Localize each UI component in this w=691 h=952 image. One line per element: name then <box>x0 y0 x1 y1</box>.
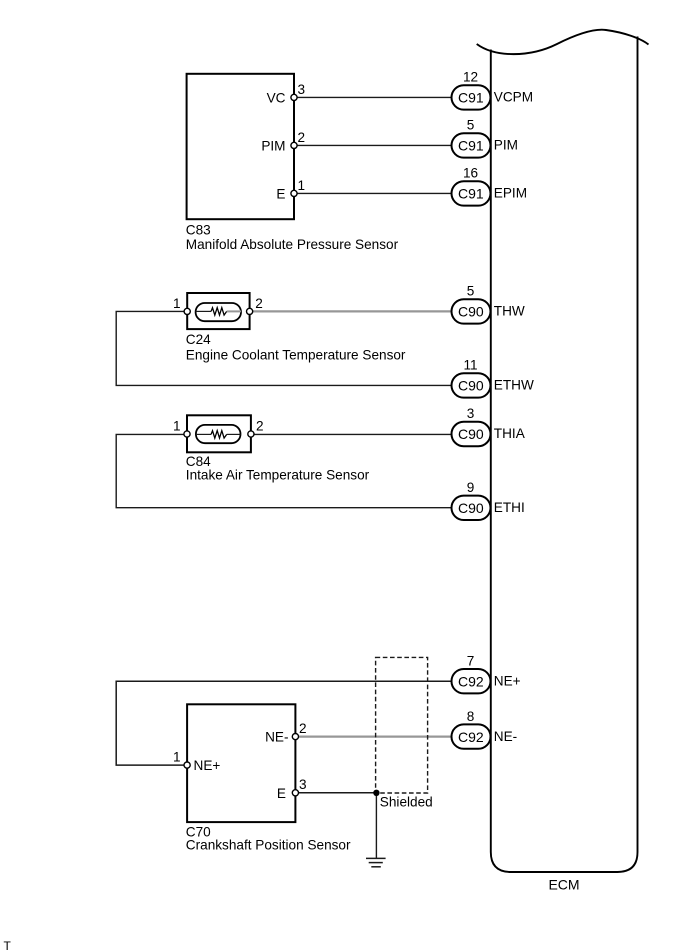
pin 1 circle C84 <box>184 431 190 437</box>
pin 2 circle <box>291 142 297 148</box>
svg-text:1: 1 <box>173 750 181 765</box>
connector C90 THW <box>452 284 525 324</box>
pin 3 circle <box>291 94 297 100</box>
pin 3 circle C70 <box>292 790 298 796</box>
shield dashed box <box>376 657 428 793</box>
pin 2 circle C84 <box>248 431 254 437</box>
svg-text:NE-: NE- <box>494 729 517 744</box>
svg-text:ECM: ECM <box>548 876 579 892</box>
connector C90 ETHI <box>452 480 525 520</box>
wire ETHI loop <box>116 434 452 507</box>
connector C90 THIA <box>452 406 526 446</box>
svg-text:11: 11 <box>463 358 477 373</box>
svg-text:2: 2 <box>298 130 306 145</box>
svg-text:E: E <box>277 786 286 801</box>
wire VC to VCPM <box>296 96 452 98</box>
wire THW (gray) <box>227 310 452 312</box>
svg-text:C90: C90 <box>458 304 484 320</box>
svg-text:C90: C90 <box>458 500 484 516</box>
svg-text:C92: C92 <box>458 673 484 689</box>
svg-text:NE-: NE- <box>265 730 288 745</box>
svg-text:VCPM: VCPM <box>494 90 533 105</box>
svg-text:2: 2 <box>299 721 307 736</box>
svg-text:5: 5 <box>467 118 475 133</box>
svg-text:EPIM: EPIM <box>494 186 527 201</box>
svg-text:1: 1 <box>173 296 181 311</box>
svg-text:3: 3 <box>299 777 307 792</box>
thermistor lead left C84 <box>196 433 211 435</box>
connector C92 NE- <box>452 709 518 749</box>
resistor zigzag C24 <box>211 308 227 315</box>
svg-text:C90: C90 <box>458 426 484 442</box>
thermistor lead right C84 <box>227 433 241 435</box>
pin 2 circle C70 <box>292 734 298 740</box>
svg-text:NE+: NE+ <box>494 674 521 689</box>
svg-text:12: 12 <box>463 70 478 85</box>
wire THIA <box>227 433 452 435</box>
svg-text:5: 5 <box>467 284 475 299</box>
svg-text:T: T <box>4 939 12 952</box>
svg-text:E: E <box>276 186 285 201</box>
svg-text:PIM: PIM <box>261 138 285 153</box>
connector C91 PIM <box>452 118 518 158</box>
svg-text:Manifold Absolute Pressure Sen: Manifold Absolute Pressure Sensor <box>186 237 399 252</box>
svg-text:C90: C90 <box>458 378 484 394</box>
thermistor lead right C24 (gray) <box>227 310 241 312</box>
svg-text:2: 2 <box>255 296 263 311</box>
svg-text:ETHW: ETHW <box>494 378 534 393</box>
wire E to EPIM <box>296 192 452 194</box>
junction dot shield <box>373 790 379 796</box>
svg-text:Crankshaft Position Sensor: Crankshaft Position Sensor <box>186 837 351 852</box>
wire E to shield junction <box>298 792 376 794</box>
connector C92 NE+ <box>452 653 521 693</box>
wire NE+ loop <box>116 681 452 765</box>
connector C91 VCPM <box>452 70 534 110</box>
svg-text:Shielded: Shielded <box>380 794 433 809</box>
svg-text:ETHI: ETHI <box>494 500 525 515</box>
svg-text:VC: VC <box>267 90 286 105</box>
svg-text:3: 3 <box>298 82 306 97</box>
wire PIM to PIM <box>296 144 452 146</box>
svg-text:1: 1 <box>298 178 306 193</box>
thermistor lead left C24 <box>196 310 212 312</box>
svg-text:Engine Coolant Temperature Sen: Engine Coolant Temperature Sensor <box>186 348 406 363</box>
svg-text:C83: C83 <box>186 223 211 238</box>
thermistor body C84 <box>196 425 241 443</box>
pin 1 circle C70 <box>184 762 190 768</box>
svg-text:C91: C91 <box>458 138 484 154</box>
svg-text:16: 16 <box>463 166 478 181</box>
svg-text:THIA: THIA <box>494 426 526 441</box>
svg-text:NE+: NE+ <box>194 758 221 773</box>
svg-text:9: 9 <box>467 480 475 495</box>
sensor C83 box <box>187 74 294 219</box>
svg-text:Intake Air Temperature Sensor: Intake Air Temperature Sensor <box>186 467 370 482</box>
svg-text:3: 3 <box>467 406 475 421</box>
svg-text:1: 1 <box>173 418 181 433</box>
sensor C24 box <box>187 293 249 329</box>
resistor zigzag C84 <box>211 431 227 438</box>
thermistor body C24 <box>196 303 241 321</box>
svg-text:C24: C24 <box>186 332 211 347</box>
pin 2 circle C24 <box>247 308 253 314</box>
svg-text:C92: C92 <box>458 729 484 745</box>
wire NE- (gray) <box>298 735 452 737</box>
wire shield to ground <box>375 793 377 859</box>
connector C90 ETHW <box>452 358 534 398</box>
svg-text:8: 8 <box>467 709 475 724</box>
ground symbol <box>366 858 386 866</box>
svg-text:C91: C91 <box>458 90 484 106</box>
pin 1 circle <box>291 190 297 196</box>
svg-text:THW: THW <box>494 304 525 319</box>
ECM outline <box>477 30 649 872</box>
pin 1 circle C24 <box>184 308 190 314</box>
svg-text:2: 2 <box>256 418 264 433</box>
svg-text:7: 7 <box>467 653 475 668</box>
sensor C70 box <box>187 704 295 822</box>
sensor C84 box <box>187 415 251 452</box>
svg-text:PIM: PIM <box>494 138 518 153</box>
connector C91 EPIM <box>452 166 528 206</box>
svg-text:C91: C91 <box>458 186 484 202</box>
wire ETHW loop <box>116 311 452 385</box>
